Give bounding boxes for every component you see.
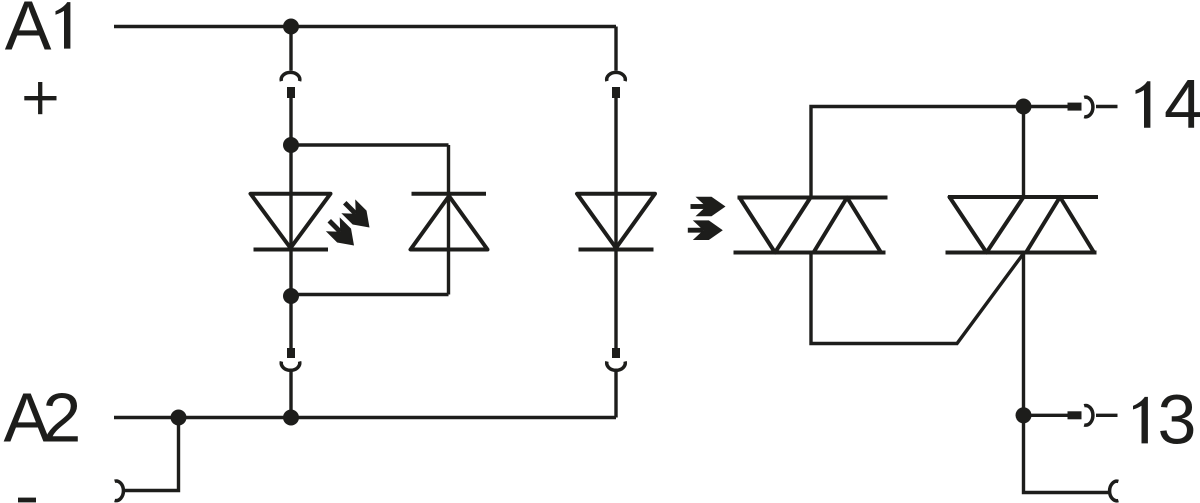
photo-triac U1 top rail <box>738 196 888 200</box>
junction dot terminal 14 <box>1016 99 1032 115</box>
wire A2 rail <box>114 416 616 419</box>
socket arc bottom of branch x616 <box>607 361 626 370</box>
svg-text:3: 3 <box>1158 381 1197 459</box>
wire stub after socket 14 <box>1096 105 1118 108</box>
wire minus stub <box>125 418 179 491</box>
wire stub to terminal 13 <box>1024 414 1068 417</box>
junction dot branch x291 / D2 top <box>283 137 299 153</box>
pin bottom of branch x291 <box>287 348 295 358</box>
junction dot branch x291 / D2 bottom <box>283 288 299 304</box>
photo-triac U1 bottom rail <box>734 251 886 255</box>
wire D2 loop bottom <box>291 293 449 296</box>
wire branch x291 lower <box>289 370 292 417</box>
LED D3 triangle <box>577 194 655 248</box>
light arrow from D1 lower <box>322 214 361 253</box>
triac Q1 left triangle <box>950 197 1024 253</box>
diode D2 triangle <box>411 196 488 250</box>
LED D1 cathode bar <box>254 248 329 252</box>
light arrow from D1 upper <box>338 196 377 235</box>
terminal label 14 <box>1136 81 1151 128</box>
junction dot A2/minus stub <box>171 410 187 426</box>
wire D2 branch vertical <box>447 145 450 295</box>
wire branch x616 middle <box>614 98 617 348</box>
triac Q1 right triangle <box>1026 197 1094 253</box>
socket arc bottom right <box>1110 481 1119 501</box>
wire stub after socket 13 <box>1096 414 1118 417</box>
label plus polarity <box>24 82 56 114</box>
LED D3 cathode bar <box>579 248 654 252</box>
socket arc bottom of branch x291 <box>281 361 300 370</box>
wire triac2 cathode down <box>1024 253 1110 493</box>
socket arc top of branch x616 <box>607 72 626 81</box>
pin top of branch x291 <box>287 87 295 98</box>
triac Q1 top rail <box>948 195 1098 199</box>
pin top of branch x616 <box>612 87 620 98</box>
svg-text:A: A <box>5 0 52 64</box>
photo-triac U1 left triangle <box>740 198 811 253</box>
wire branch x616 upper <box>614 27 617 71</box>
wire A1 rail <box>114 25 616 28</box>
wire branch x616 lower <box>614 370 617 417</box>
socket arc minus terminal <box>115 481 124 501</box>
junction dot A2/branch x291 <box>283 410 299 426</box>
junction dot terminal 13 <box>1016 407 1032 423</box>
light arrow to U1 lower <box>688 220 723 240</box>
wire branch x291 upper <box>289 27 292 71</box>
wire branch x291 middle <box>289 98 292 348</box>
wire gate link <box>811 253 1024 344</box>
pin terminal 13 <box>1068 411 1082 419</box>
light arrow to U1 upper <box>691 197 726 217</box>
socket arc top of branch x291 <box>281 72 300 81</box>
label minus polarity <box>18 498 36 503</box>
wire triac2 anode <box>1022 107 1025 198</box>
terminal label 13 <box>1133 397 1148 444</box>
socket arc terminal 14 <box>1084 97 1093 117</box>
wire output top link <box>811 107 1024 198</box>
wire D2 loop top <box>291 143 449 146</box>
LED D1 triangle <box>251 194 331 248</box>
socket arc terminal 13 <box>1084 406 1093 426</box>
junction dot A1/branch x291 <box>283 19 299 35</box>
wire stub to terminal 14 <box>1024 105 1068 108</box>
pin terminal 14 <box>1068 103 1082 111</box>
svg-text:2: 2 <box>42 379 81 457</box>
pin bottom of branch x616 <box>612 348 620 358</box>
diode D2 cathode bar <box>412 192 487 196</box>
photo-triac U1 right triangle <box>814 198 882 253</box>
triac Q1 bottom rail <box>946 251 1097 255</box>
svg-text:4: 4 <box>1164 65 1200 143</box>
